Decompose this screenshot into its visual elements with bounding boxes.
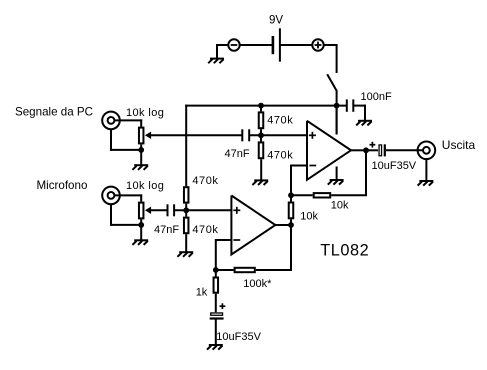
label 10k (R6) bbox=[331, 199, 349, 211]
label 100nF bbox=[361, 91, 392, 103]
label 10uF35V (C5) bbox=[216, 331, 261, 343]
svg-text:TL082: TL082 bbox=[320, 242, 369, 260]
svg-text:10k log: 10k log bbox=[126, 107, 164, 119]
wire R8 to C5 bbox=[215, 294, 217, 313]
label 1k (R8) bbox=[196, 287, 208, 299]
wire R4 bottom to ground bbox=[185, 234, 187, 252]
node 470k bias divider (PC) bbox=[258, 132, 264, 138]
wire node to ground (mic pot) bbox=[140, 225, 142, 240]
label 100k* (R7) bbox=[243, 278, 272, 290]
svg-text:10uF35V: 10uF35V bbox=[216, 331, 261, 343]
ground (C5) bbox=[207, 345, 223, 350]
capacitor C3 100nF supply decoupling bbox=[347, 99, 354, 111]
connector J2 Microfono (RCA jack) bbox=[102, 187, 120, 205]
battery B1 9V cell plates bbox=[273, 28, 280, 61]
wire U1A output to node bbox=[350, 149, 366, 151]
wire R5 bottom to U1B output node bbox=[290, 219, 292, 225]
resistor R8 1k (U1B gain set) bbox=[214, 278, 219, 293]
connector J3 Uscita (RCA jack output) bbox=[418, 142, 436, 160]
label 470k (R1) bbox=[267, 114, 293, 126]
label 470k (R3) bbox=[192, 175, 218, 187]
svg-text:47nF: 47nF bbox=[154, 224, 179, 236]
wire 100nF ground drop bbox=[364, 105, 366, 121]
label 10k log (P1) bbox=[126, 107, 164, 119]
ground (PC 470k) bbox=[252, 180, 268, 185]
label 9V battery voltage bbox=[269, 15, 283, 27]
ground (mic 470k) bbox=[177, 252, 193, 257]
wire minus terminal to battery plate bbox=[240, 44, 273, 46]
wire corner up to U1B output bbox=[290, 225, 292, 270]
wire ground corner to minus terminal bbox=[216, 44, 228, 46]
potentiometer P1 wiper arrow bbox=[145, 132, 242, 139]
node mic pot ground junction bbox=[138, 222, 144, 228]
node V+ rail at switch bbox=[334, 103, 340, 109]
label Microfono input bbox=[37, 179, 88, 192]
wire - input down to feedback node bbox=[215, 239, 217, 270]
label 10k log (P2) bbox=[126, 180, 164, 192]
svg-text:Microfono: Microfono bbox=[37, 179, 88, 192]
wire V+ rail left drop to mic 470k bbox=[185, 105, 187, 187]
wire C2 to op-amp U1B + input bbox=[174, 209, 232, 211]
resistor R2 470k (PC bias lower) bbox=[259, 142, 264, 158]
battery B1 positive terminal circle bbox=[312, 39, 323, 50]
wire V+ rail bbox=[185, 105, 347, 107]
ground (Uscita) bbox=[418, 181, 434, 186]
potentiometer P2 wiper arrow bbox=[145, 207, 168, 214]
op-amp U1A + input symbol bbox=[309, 132, 316, 139]
label 470k (R4) bbox=[192, 224, 218, 236]
wire down to pot P2 bbox=[140, 194, 142, 201]
svg-text:100k*: 100k* bbox=[243, 278, 272, 290]
label 47nF (C1) bbox=[225, 148, 250, 160]
potentiometer P1 10k log (PC level) bbox=[139, 128, 144, 144]
wire corner up to U1A output bbox=[365, 150, 367, 195]
svg-text:47nF: 47nF bbox=[225, 148, 250, 160]
svg-text:10k: 10k bbox=[300, 210, 318, 222]
ground (battery minus) bbox=[208, 59, 224, 64]
svg-text:470k: 470k bbox=[192, 175, 218, 187]
wire feedback node to R7 bbox=[216, 269, 234, 271]
wire U1B - input bbox=[216, 239, 233, 241]
svg-text:470k: 470k bbox=[267, 149, 293, 161]
resistor R3 470k (mic bias upper) bbox=[184, 187, 189, 202]
potentiometer P2 10k log (mic level) bbox=[139, 203, 144, 219]
node U1B output bbox=[288, 222, 294, 228]
capacitor C4 10uF35V output electrolytic (+ plate hollow) bbox=[370, 142, 385, 157]
node summing junction bbox=[288, 192, 294, 198]
ground (U1A V- pin) bbox=[328, 180, 344, 185]
switch SW1 blade bbox=[327, 74, 337, 91]
capacitor C2 47nF (mic input coupling) bbox=[168, 204, 175, 216]
svg-text:9V: 9V bbox=[269, 15, 283, 27]
node U1B feedback junction bbox=[213, 267, 219, 273]
op-amp U1A - input symbol bbox=[309, 165, 316, 167]
wire J1 sleeve down bbox=[110, 129, 112, 151]
wire C1 to op-amp U1A + input bbox=[249, 134, 308, 136]
wire pot P1 bottom to node bbox=[140, 144, 142, 150]
wire U1B output bbox=[274, 224, 291, 226]
resistor R5 10k (mix from U1B output) bbox=[289, 203, 294, 219]
wire output node to C4 bbox=[366, 149, 378, 151]
svg-text:Uscita: Uscita bbox=[442, 138, 476, 152]
node U1A output bbox=[363, 147, 369, 153]
svg-text:10k log: 10k log bbox=[126, 180, 164, 192]
op-amp U1A (TL082 first half) triangle bbox=[307, 121, 351, 180]
resistor R4 470k (mic bias lower) bbox=[184, 218, 189, 234]
wire plus terminal to switch bbox=[324, 44, 338, 46]
wire R6 to corner bbox=[331, 194, 367, 196]
wire J1 sleeve to pot bottom node bbox=[110, 149, 141, 151]
ground (PC pot) bbox=[132, 165, 148, 170]
wire summing node to R6 bbox=[291, 194, 313, 196]
wire pot P2 bottom to node bbox=[140, 219, 142, 225]
ground (mic pot) bbox=[132, 240, 148, 245]
label Segnale da PC input bbox=[15, 106, 93, 119]
label TL082 IC type bbox=[320, 242, 369, 260]
op-amp U1A V+ power pin from switch bbox=[336, 106, 338, 135]
wire J2 tip to pot top bbox=[114, 194, 142, 196]
connector J1 Segnale da PC (RCA jack) bbox=[102, 112, 120, 130]
wire R5 top to summing node bbox=[290, 195, 292, 201]
ground (100nF) bbox=[356, 121, 372, 126]
node PC pot ground junction bbox=[138, 147, 144, 153]
wire node to R2 top bbox=[260, 135, 262, 141]
wire C5 to ground bbox=[215, 319, 217, 345]
wire R3 bottom to node bbox=[185, 204, 187, 211]
wire down to switch pole bbox=[336, 44, 338, 73]
wire R1 top bbox=[260, 106, 262, 112]
resistor R7 100k* (U1B feedback) bbox=[235, 268, 255, 272]
capacitor C5 10uF35V electrolytic (+ plate hollow) bbox=[210, 303, 226, 318]
node V+ rail to 470k pair (PC) bbox=[258, 103, 264, 109]
label 47nF (C2) bbox=[154, 224, 179, 236]
svg-text:470k: 470k bbox=[267, 114, 293, 126]
op-amp U1B + input symbol bbox=[233, 207, 240, 214]
capacitor C1 47nF (PC input coupling) bbox=[242, 129, 249, 141]
wire down to pot P1 bbox=[140, 119, 142, 126]
wire R7 to corner bbox=[256, 269, 292, 271]
wire battery plus plate to plus terminal bbox=[280, 44, 312, 46]
wire battery minus to ground bbox=[216, 45, 218, 58]
op-amp U1B (TL082 second half) triangle bbox=[231, 196, 275, 255]
node 470k bias divider (mic) bbox=[183, 207, 189, 213]
resistor R6 10k (U1A feedback) bbox=[314, 193, 331, 197]
battery B1 negative terminal circle bbox=[228, 39, 239, 50]
wire J3 sleeve to ground bbox=[425, 159, 427, 181]
svg-text:470k: 470k bbox=[192, 224, 218, 236]
wire J2 sleeve down bbox=[110, 204, 112, 226]
label 10k (R5) bbox=[300, 210, 318, 222]
wire U1A V- power pin to ground bbox=[336, 167, 338, 180]
wire J1 tip to pot top bbox=[114, 119, 142, 121]
wire summing node up to U1A - input corner bbox=[290, 165, 292, 196]
svg-text:10uF35V: 10uF35V bbox=[372, 160, 417, 172]
resistor R1 470k (PC bias upper) bbox=[259, 112, 264, 128]
wire R1 bottom to node bbox=[260, 129, 262, 135]
wire node to R4 top bbox=[185, 210, 187, 216]
wire node to ground (PC pot) bbox=[140, 150, 142, 165]
op-amp U1B - input symbol bbox=[233, 239, 240, 241]
wire C4 to output connector bbox=[386, 149, 423, 151]
svg-text:100nF: 100nF bbox=[361, 91, 392, 103]
wire R2 bottom to ground bbox=[260, 159, 262, 180]
svg-text:1k: 1k bbox=[196, 287, 208, 299]
wire switch to V+ node bbox=[336, 91, 338, 135]
wire 100nF to ground corner bbox=[353, 105, 366, 107]
svg-text:Segnale da PC: Segnale da PC bbox=[15, 106, 93, 119]
svg-text:10k: 10k bbox=[331, 199, 349, 211]
label 10uF35V (C4) bbox=[372, 160, 417, 172]
label Uscita output bbox=[442, 138, 476, 152]
wire J2 sleeve to pot bottom node bbox=[110, 224, 141, 226]
label 470k (R2) bbox=[267, 149, 293, 161]
wire corner to U1A - input bbox=[291, 165, 308, 167]
wire feedback node to R8 bbox=[215, 270, 217, 277]
